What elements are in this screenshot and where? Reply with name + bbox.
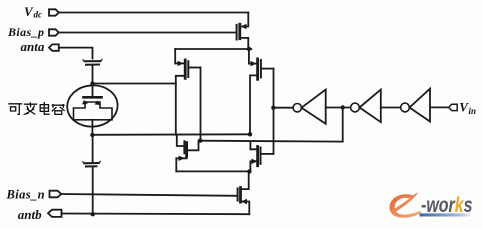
wire antb line xyxy=(62,213,250,216)
wire feedback down xyxy=(342,108,344,142)
wire antb node to M3 drain line xyxy=(92,133,250,136)
port antb xyxy=(48,210,62,217)
wire M3/M5 gate line xyxy=(273,69,275,154)
logo e bowl xyxy=(389,194,421,217)
port Vdc xyxy=(49,9,59,15)
junction dot inverter tap xyxy=(271,106,275,110)
wire cap to antb line xyxy=(92,168,94,215)
varactor arrows xyxy=(82,100,88,105)
svg-text:Bias_n: Bias_n xyxy=(6,187,46,201)
inverter U1 bubble xyxy=(293,104,301,112)
label antb xyxy=(18,207,42,222)
capacitor C2 xyxy=(84,163,99,167)
logo blue bar xyxy=(420,213,471,216)
inverter U2 bubble xyxy=(351,103,360,112)
svg-text:Bias_p: Bias_p xyxy=(7,25,44,39)
svg-text:V: V xyxy=(24,4,34,19)
transistor M5 (right lower NMOS) xyxy=(250,142,256,150)
transistor M6 (bottom NMOS current source) xyxy=(237,188,239,200)
varactor bottom lead xyxy=(91,120,93,135)
wire U1-U2 xyxy=(326,107,351,109)
inverter U2 triangle xyxy=(360,90,381,123)
label Bias_n xyxy=(6,187,46,201)
wire cap to node A xyxy=(92,66,94,84)
svg-text:-works: -works xyxy=(421,193,473,217)
label Vdc xyxy=(24,4,42,20)
svg-text:anta: anta xyxy=(21,39,45,54)
transistor M4 (left lower NMOS) xyxy=(177,135,184,146)
label Bias_p xyxy=(7,25,44,39)
wire node B down xyxy=(92,135,94,162)
wire Bias_n to M6 gate xyxy=(61,194,237,196)
svg-text:in: in xyxy=(469,106,477,116)
logo e-works xyxy=(389,192,472,217)
port anta xyxy=(49,44,59,50)
varactor ellipse xyxy=(66,84,119,129)
svg-text:dc: dc xyxy=(34,10,43,20)
wire inverter1 output xyxy=(273,107,293,109)
wire U2-U3 xyxy=(381,107,401,109)
wire Vdc rail xyxy=(59,12,249,14)
label Vin xyxy=(459,100,476,116)
junction dot M3 drain xyxy=(248,132,252,136)
node A dot xyxy=(90,81,94,85)
wire anta node to M2 drain xyxy=(93,83,176,85)
inverter U1 triangle xyxy=(302,90,326,124)
transistor M2 (left cross-coupled PMOS) xyxy=(174,49,176,63)
varactor gate bar xyxy=(84,96,102,99)
wire M2 gate to cross node xyxy=(200,68,202,141)
logo e swoosh bar xyxy=(391,192,418,213)
junction dot common source xyxy=(247,169,251,173)
capacitor C1 xyxy=(85,61,101,65)
varactor body xyxy=(74,102,113,120)
varactor gate lead xyxy=(92,87,94,97)
port Bias_p xyxy=(49,29,59,35)
wire node A down xyxy=(175,84,177,135)
junction dot cross node xyxy=(198,139,202,143)
transistor M3 (right cross-coupled PMOS) xyxy=(248,49,250,64)
inverter U3 triangle xyxy=(410,89,431,122)
junction dot feedback xyxy=(341,105,345,109)
junction dot antb xyxy=(91,212,95,216)
junction dot M1 drain xyxy=(247,47,251,51)
node B dot xyxy=(90,133,94,137)
port Bias_n xyxy=(50,191,62,198)
wire tail node top xyxy=(175,48,251,50)
svg-text:antb: antb xyxy=(18,207,42,222)
inverter U3 bubble xyxy=(401,103,410,112)
wire U3 input xyxy=(430,106,449,108)
label 可变电容 (drawn glyphs) xyxy=(9,103,64,115)
transistor M1 (top PMOS current source) xyxy=(236,25,238,40)
port Vin xyxy=(449,104,458,110)
wire cross node to inverter2 input xyxy=(200,140,343,143)
wire Bias_p to M1 gate xyxy=(59,32,237,34)
label anta xyxy=(21,39,45,54)
wire common source xyxy=(176,170,249,172)
wire anta node xyxy=(59,48,93,59)
